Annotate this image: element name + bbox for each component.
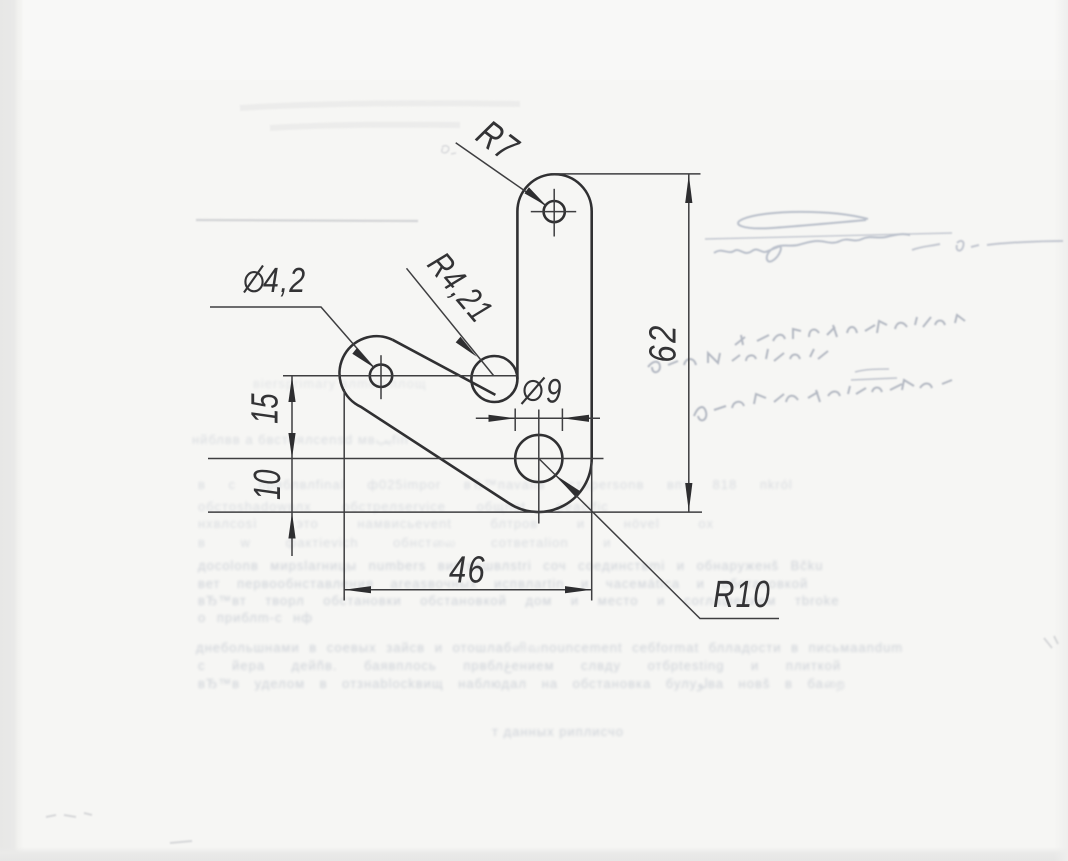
arrow 46 right: [565, 586, 592, 593]
hole top (in R7 end): [544, 201, 565, 222]
dim line 62 vertical: [688, 175, 690, 512]
svg-text:10: 10: [247, 470, 289, 500]
text phi9 digit: [546, 373, 563, 411]
arrow phi9 left (pointing right, tip at hole left edge): [489, 415, 516, 422]
faint bottom-left marks: [46, 813, 92, 817]
leader R7: [456, 143, 547, 206]
pencil bleed: third scribble row: [694, 380, 952, 420]
dim line 15/10 vertical: [291, 376, 293, 556]
faint printed rule: [196, 220, 418, 221]
tick phi9 left: [514, 409, 516, 432]
arrowhead R7 leader: [525, 187, 547, 206]
phi symbol for 4,2: [245, 272, 262, 291]
arrowhead R10 leader (tip at phi9 hole edge pointing up-left): [556, 475, 581, 496]
text 62 rotated: [642, 323, 684, 362]
hole phi 9: [515, 435, 562, 482]
arrow 62 bottom (down): [685, 483, 692, 512]
arrow 15 top (up): [288, 376, 295, 402]
faint right-margin tick: [1044, 636, 1058, 648]
arrow 46 left: [344, 586, 371, 593]
svg-text:4,2: 4,2: [263, 261, 306, 300]
pencil bleed: double underline mark: [851, 369, 897, 380]
text R10: [713, 574, 771, 616]
arrowhead phi4,2 leader: [352, 348, 373, 368]
leader R10 from hole center to text: [539, 459, 779, 619]
svg-text:15: 15: [245, 393, 287, 424]
arrowhead R4,21 leader: [456, 337, 477, 357]
leader phi4,2 shoulder and slant: [210, 307, 374, 367]
svg-text:9: 9: [546, 373, 563, 411]
hole left (phi 4.2): [370, 365, 392, 387]
phi symbol for 9: [525, 381, 542, 400]
L2 extension line through phi9 center: [208, 458, 604, 460]
arrow 62 top (up): [685, 175, 692, 203]
extension line 46 right: [591, 462, 593, 601]
arrow 15 bottom (down): [288, 433, 295, 459]
pencil bleed: underline: [705, 233, 952, 239]
pencil bleed: swoosh loop: [738, 212, 868, 229]
text 10 rotated: [247, 470, 289, 500]
faint dash: [170, 841, 192, 843]
L3 bottom tangent extension line: [208, 511, 702, 513]
arrow 10 below L3 (up): [288, 513, 295, 539]
svg-text:R10: R10: [713, 574, 771, 616]
centerline phi9 vertical: [538, 410, 540, 524]
pencil bleed: right-margin mark: [957, 241, 1063, 251]
leader R4,21: [407, 268, 494, 375]
pencil bleed: mirrored digits row: [735, 315, 965, 345]
bleed-through printed text rows: [192, 432, 482, 448]
text 46: [449, 549, 486, 591]
centerline top hole horizontal: [531, 211, 576, 213]
dim line phi9 horizontal: [476, 417, 600, 419]
text R7: [469, 113, 527, 171]
part outline: left lug arc, bottom edge, R10 hub arc, right edge, R7 top arc, left edge of vertical arm: [340, 174, 592, 512]
svg-text:R7: R7: [469, 113, 527, 171]
svg-text:R4,21: R4,21: [420, 245, 500, 330]
svg-text:46: 46: [449, 549, 486, 591]
fillet R4.21 drawn as full circle: [471, 356, 517, 402]
extension line 46 left: [343, 389, 345, 601]
tick phi9 right: [561, 409, 563, 432]
centerline top hole vertical: [553, 189, 555, 237]
svg-text:62: 62: [642, 323, 684, 362]
dim line 46 horizontal: [344, 589, 592, 591]
centerline left hole vertical: [380, 355, 382, 399]
pencil bleed: signature scribble: [714, 234, 910, 261]
top extension line for 62: [552, 173, 701, 175]
pencil bleed: second scribble row: [648, 349, 828, 372]
arrow phi9 right (pointing left, tip at hole right edge): [562, 415, 589, 422]
text 15 rotated: [245, 393, 287, 424]
pencil bleed: small tail: [912, 244, 940, 250]
L1 extension line through left hole center: [283, 375, 517, 377]
faint top strips: [240, 103, 520, 128]
text phi4,2 : digits: [263, 261, 306, 300]
top edge of left arm: [392, 340, 495, 395]
faint curl mark: [442, 146, 456, 154]
text R4,21: [420, 245, 500, 330]
